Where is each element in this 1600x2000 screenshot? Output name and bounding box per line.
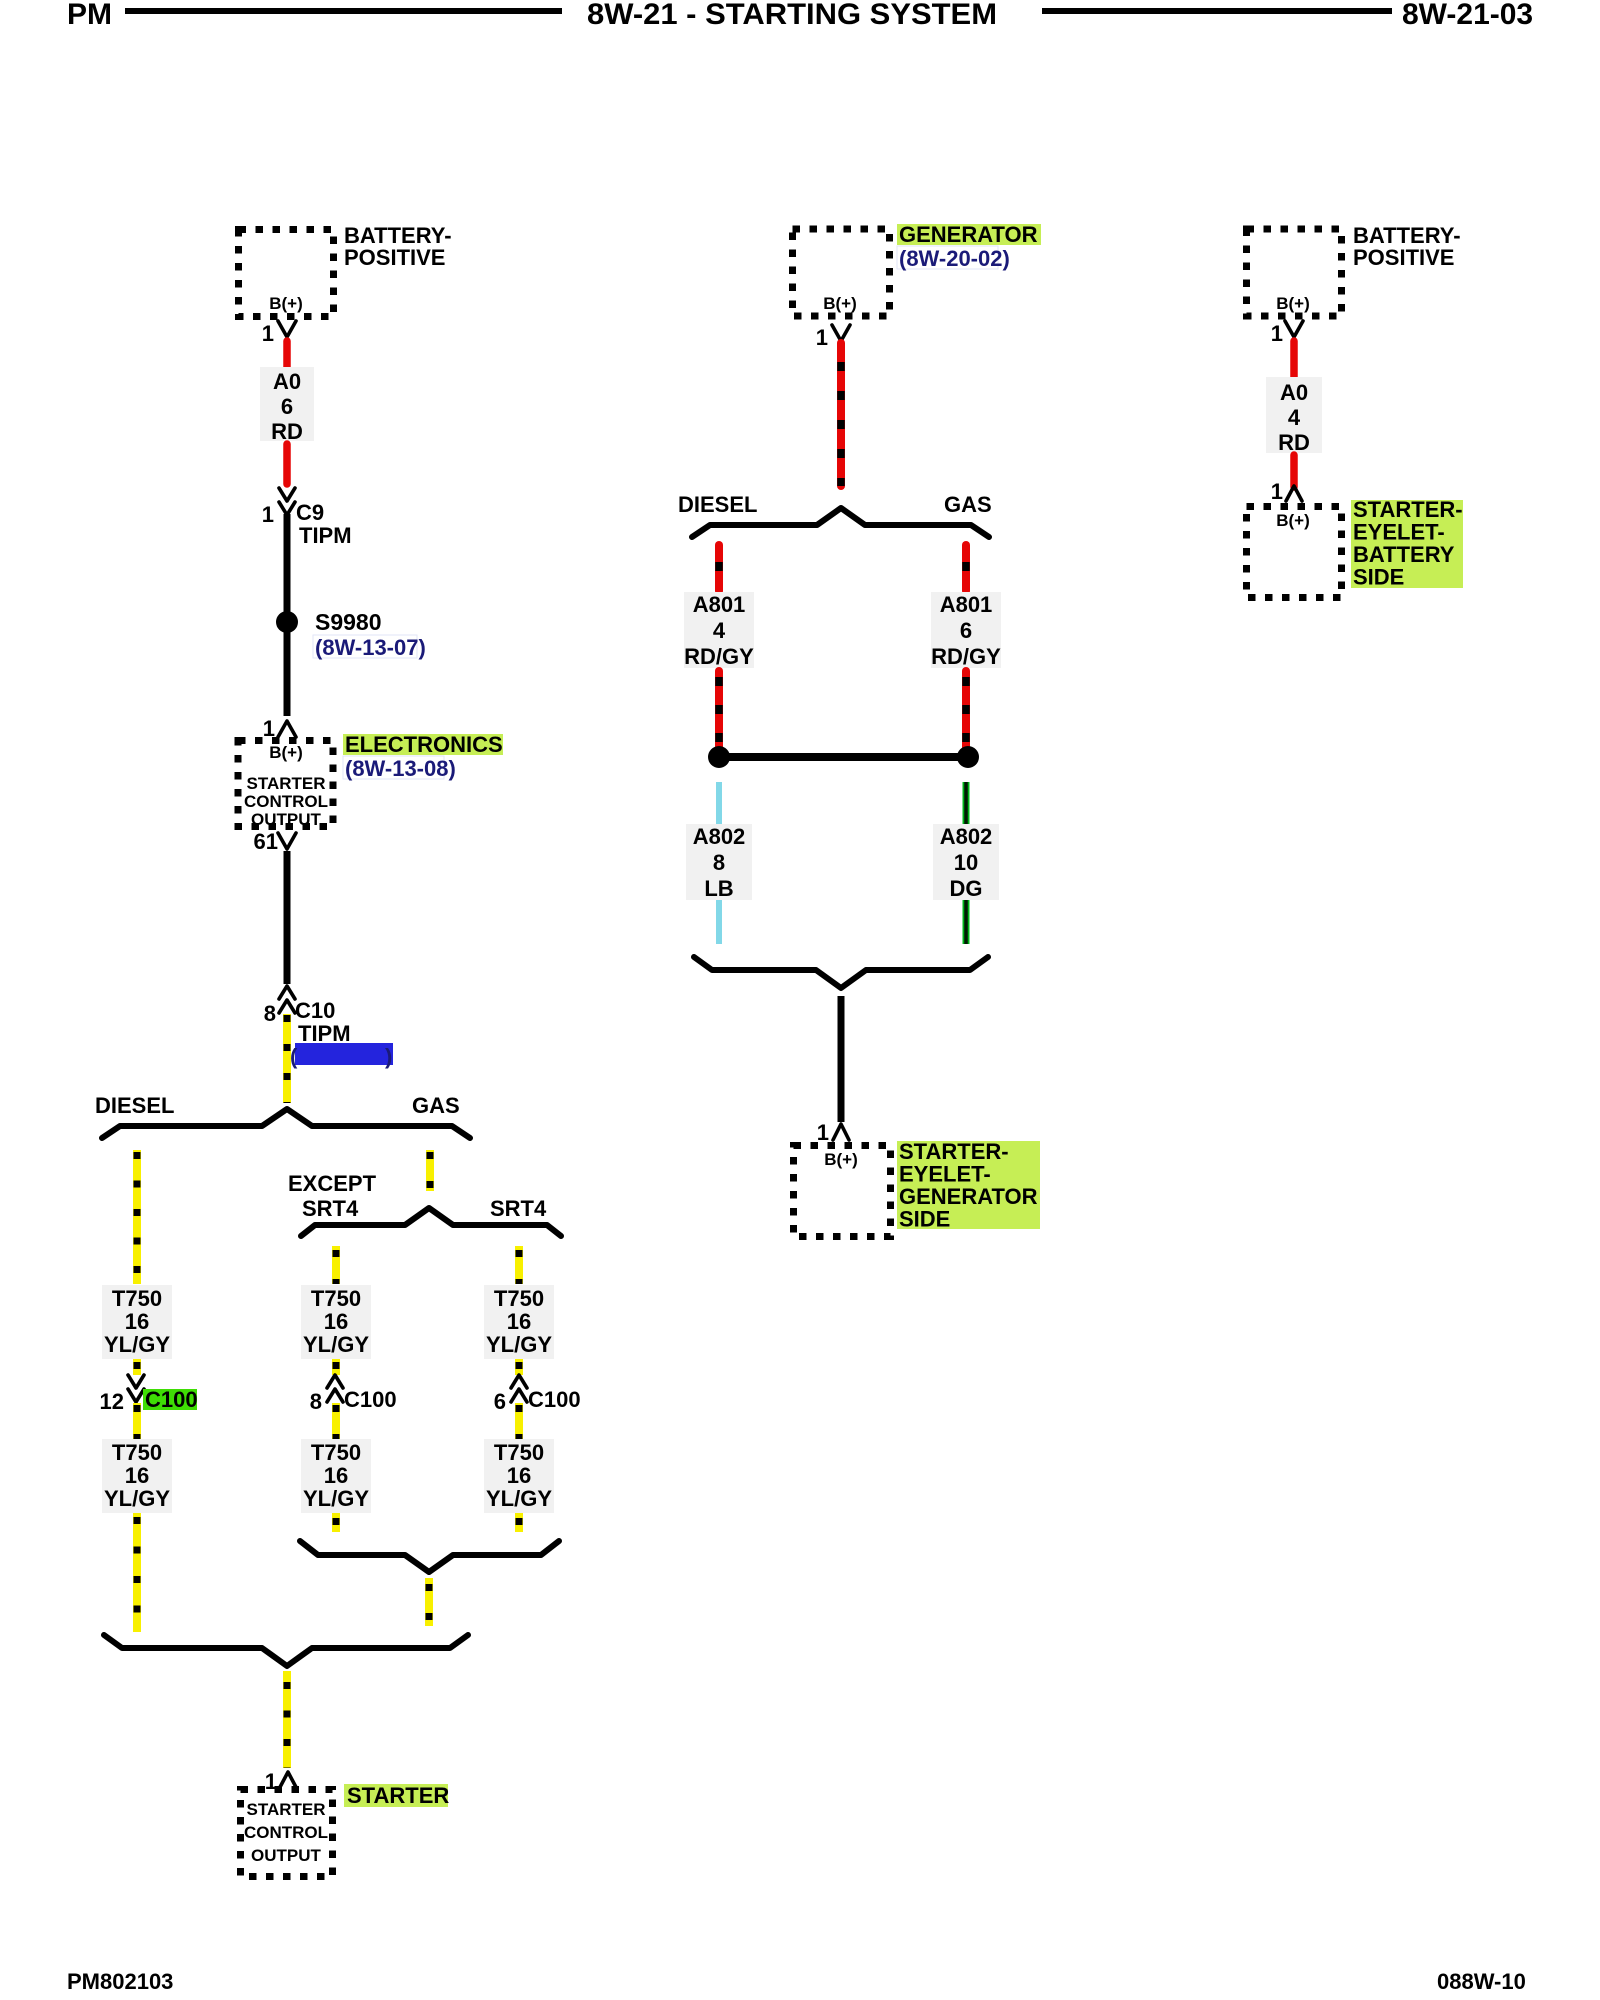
svg-text:GAS: GAS	[944, 492, 992, 517]
component box ELECTRONICS B(+) STARTER CONTROL OUTPUT	[238, 741, 333, 830]
svg-text:B(+): B(+)	[1276, 294, 1310, 313]
wire red dashed generator output	[837, 343, 845, 486]
connector chevron into electronics box	[278, 721, 296, 737]
wire A801 6 RD/GY lower segment	[962, 671, 970, 749]
svg-text:STARTER: STARTER	[246, 1800, 325, 1819]
svg-text:DIESEL: DIESEL	[95, 1093, 174, 1118]
connector chevron at battery box (right)	[1285, 321, 1303, 337]
svg-text:8: 8	[713, 850, 725, 875]
wire label T750 16 YL/GY lower (diesel)	[102, 1439, 172, 1513]
wire A801 6 RD/GY upper segment	[962, 545, 970, 591]
merge brace middle column	[694, 957, 988, 988]
connector chevron at battery box (left)	[278, 321, 296, 337]
svg-text:(8W-13-08): (8W-13-08)	[345, 756, 456, 781]
component box starter eyelet generator side B(+)	[794, 1146, 891, 1237]
split brace EXCEPT SRT4/SRT4	[301, 1208, 561, 1236]
svg-text:4: 4	[1288, 405, 1301, 430]
component box GENERATOR	[793, 229, 890, 316]
merge brace diesel/gas final	[104, 1635, 468, 1666]
svg-text:SRT4: SRT4	[490, 1196, 547, 1221]
wire label T750 16 YL/GY (diesel)	[102, 1285, 172, 1359]
svg-text:B(+): B(+)	[823, 294, 857, 313]
wire srt4 yellow stub lower	[515, 1513, 523, 1532]
svg-text:DG: DG	[950, 876, 983, 901]
svg-text:EYELET-: EYELET-	[899, 1162, 991, 1187]
svg-text:OUTPUT: OUTPUT	[251, 1846, 322, 1865]
svg-text:SIDE: SIDE	[1353, 565, 1404, 590]
wire label A801 6 RD/GY	[931, 592, 1001, 669]
svg-text:TIPM: TIPM	[298, 1021, 351, 1046]
svg-text:16: 16	[125, 1309, 149, 1334]
wire A802 8 LB lower segment	[716, 900, 722, 944]
svg-text:): )	[385, 1044, 392, 1069]
svg-text:T750: T750	[494, 1286, 544, 1311]
wire yellow stub above C100 (diesel)	[133, 1359, 141, 1375]
wire T750 yellow below C10	[283, 1014, 291, 1103]
svg-text:CONTROL: CONTROL	[244, 792, 328, 811]
svg-text:1: 1	[1271, 321, 1283, 346]
wire A0 4 RD lower segment	[1290, 455, 1298, 487]
wire A0 6 RD upper segment	[283, 341, 291, 367]
wire A802 8 LB upper segment	[716, 782, 722, 825]
svg-text:C9: C9	[296, 500, 324, 525]
svg-text:TIPM: TIPM	[299, 523, 352, 548]
svg-text:BATTERY: BATTERY	[1353, 542, 1455, 567]
splice S9980	[276, 611, 298, 633]
connector name C10 TIPM	[295, 998, 351, 1046]
svg-text:POSITIVE: POSITIVE	[1353, 245, 1454, 270]
svg-text:B(+): B(+)	[269, 294, 303, 313]
wire A0 4 RD upper segment	[1290, 341, 1298, 377]
svg-text:T750: T750	[311, 1440, 361, 1465]
svg-text:PM: PM	[67, 0, 112, 31]
wire yellow stub above C100 (srt4)	[515, 1359, 523, 1375]
svg-text:1: 1	[262, 321, 274, 346]
svg-text:8: 8	[264, 1001, 276, 1026]
svg-text:EYELET-: EYELET-	[1353, 520, 1445, 545]
connector C100 chevrons (pin 6)	[511, 1375, 527, 1402]
svg-text:A0: A0	[273, 369, 301, 394]
svg-text:GENERATOR: GENERATOR	[899, 1184, 1038, 1209]
svg-text:POSITIVE: POSITIVE	[344, 245, 445, 270]
svg-text:STARTER-: STARTER-	[1353, 497, 1463, 522]
svg-text:SIDE: SIDE	[899, 1207, 950, 1232]
wire except-srt4 yellow stub lower	[332, 1513, 340, 1532]
connector C100 chevrons (pin 8)	[327, 1375, 343, 1402]
svg-text:C100: C100	[145, 1387, 198, 1412]
svg-text:YL/GY: YL/GY	[104, 1332, 170, 1357]
connector name C9 TIPM	[296, 500, 352, 548]
wire yellow below gas merge	[425, 1578, 433, 1626]
component box BATTERY-POSITIVE (right)	[1247, 229, 1342, 316]
svg-text:16: 16	[125, 1463, 149, 1488]
connector C9 chevrons	[279, 488, 295, 515]
svg-text:GENERATOR: GENERATOR	[899, 222, 1038, 247]
wire diesel yellow long lower	[133, 1513, 141, 1632]
reference (8W-13-08)	[343, 756, 456, 781]
svg-text:61: 61	[254, 829, 278, 854]
svg-text:YL/GY: YL/GY	[104, 1486, 170, 1511]
wire black to starter eyelet generator side	[838, 996, 845, 1122]
svg-text:A801: A801	[693, 592, 746, 617]
header rule left	[125, 8, 562, 14]
svg-text:A802: A802	[940, 824, 993, 849]
redacted reference under TIPM	[290, 1043, 393, 1069]
svg-text:T750: T750	[311, 1286, 361, 1311]
svg-text:B(+): B(+)	[1276, 511, 1310, 530]
svg-text:ELECTRONICS: ELECTRONICS	[345, 732, 503, 757]
svg-text:STARTER: STARTER	[246, 774, 325, 793]
wire yellow stub below C100 (diesel)	[133, 1403, 141, 1439]
svg-text:EXCEPT: EXCEPT	[288, 1171, 377, 1196]
svg-text:4: 4	[713, 618, 726, 643]
svg-text:16: 16	[507, 1309, 531, 1334]
junction dot right	[957, 746, 979, 768]
svg-text:CONTROL: CONTROL	[244, 1823, 328, 1842]
svg-text:088W-10: 088W-10	[1437, 1969, 1526, 1994]
wire except-srt4 yellow stub	[332, 1246, 340, 1284]
connector chevron into starter box	[279, 1772, 297, 1789]
label ELECTRONICS highlighted	[343, 732, 503, 757]
junction dot left	[708, 746, 730, 768]
svg-text:GAS: GAS	[412, 1093, 460, 1118]
wire black electronics to C10	[284, 851, 291, 984]
svg-text:STARTER: STARTER	[347, 1783, 449, 1808]
svg-text:T750: T750	[112, 1440, 162, 1465]
connector chevron out of electronics box	[278, 833, 296, 849]
wire gas branch yellow upper	[426, 1150, 434, 1191]
wire yellow stub below C100 (except srt4)	[332, 1403, 340, 1439]
branch label EXCEPT SRT4	[288, 1171, 377, 1221]
reference (8W-13-07)	[313, 635, 426, 660]
svg-text:S9980: S9980	[315, 609, 382, 635]
svg-text:(8W-13-07): (8W-13-07)	[315, 635, 426, 660]
wire black C9 to splice	[284, 514, 291, 613]
svg-text:C10: C10	[295, 998, 335, 1023]
svg-text:6: 6	[960, 618, 972, 643]
wire A0 6 RD lower segment	[283, 444, 291, 484]
label BATTERY-POSITIVE (right)	[1353, 223, 1461, 270]
svg-text:T750: T750	[494, 1440, 544, 1465]
wire label A802 8 LB	[686, 824, 752, 901]
svg-text:C100: C100	[344, 1387, 397, 1412]
wire A801 4 RD/GY upper segment	[715, 545, 723, 591]
svg-text:YL/GY: YL/GY	[486, 1332, 552, 1357]
svg-text:12: 12	[100, 1389, 124, 1414]
wire label T750 16 YL/GY (srt4)	[484, 1285, 554, 1359]
svg-text:RD/GY: RD/GY	[931, 644, 1001, 669]
svg-text:16: 16	[507, 1463, 531, 1488]
bus wire between junctions	[719, 753, 968, 761]
wire A802 10 DG lower segment	[963, 900, 970, 944]
svg-text:1: 1	[817, 1120, 829, 1145]
component box BATTERY-POSITIVE (left)	[239, 230, 334, 317]
svg-text:OUTPUT: OUTPUT	[251, 810, 322, 829]
wire black splice to electronics box	[284, 632, 291, 716]
wire A802 10 DG upper segment	[963, 782, 970, 825]
svg-text:A801: A801	[940, 592, 993, 617]
svg-text:A802: A802	[693, 824, 746, 849]
svg-text:16: 16	[324, 1309, 348, 1334]
svg-text:PM802103: PM802103	[67, 1969, 173, 1994]
merge brace gas branches	[300, 1541, 559, 1572]
svg-text:8W-21 - STARTING SYSTEM: 8W-21 - STARTING SYSTEM	[587, 0, 997, 31]
svg-text:YL/GY: YL/GY	[486, 1486, 552, 1511]
svg-text:T750: T750	[112, 1286, 162, 1311]
label STARTER highlighted	[344, 1783, 449, 1808]
svg-text:6: 6	[281, 394, 293, 419]
svg-text:B(+): B(+)	[269, 743, 303, 762]
connector C100 chevrons (pin 12)	[128, 1375, 144, 1402]
svg-text:16: 16	[324, 1463, 348, 1488]
svg-text:YL/GY: YL/GY	[303, 1486, 369, 1511]
wire label A0 4 RD	[1266, 377, 1322, 455]
svg-text:6: 6	[494, 1389, 506, 1414]
component box STARTER CONTROL OUTPUT	[241, 1790, 333, 1877]
component box starter eyelet battery side B(+)	[1247, 507, 1342, 598]
split brace DIESEL/GAS (middle)	[692, 508, 989, 537]
label GENERATOR highlighted	[897, 222, 1041, 247]
connector chevron into battery side eyelet	[1286, 486, 1302, 501]
svg-text:(8W-20-02): (8W-20-02)	[899, 246, 1010, 271]
label STARTER-EYELET-GENERATOR SIDE highlighted	[897, 1139, 1040, 1232]
reference (8W-20-02)	[897, 246, 1010, 271]
wire A801 4 RD/GY lower segment	[715, 671, 723, 749]
svg-text:8: 8	[310, 1389, 322, 1414]
svg-text:SRT4: SRT4	[302, 1196, 359, 1221]
svg-text:DIESEL: DIESEL	[678, 492, 757, 517]
wire label T750 16 YL/GY lower (except srt4)	[301, 1439, 371, 1513]
wire label A802 10 DG	[933, 824, 999, 901]
svg-text:C100: C100	[528, 1387, 581, 1412]
wire yellow stub below C100 (srt4)	[515, 1403, 523, 1439]
wire yellow stub above C100 (except srt4)	[332, 1359, 340, 1375]
svg-text:1: 1	[262, 502, 274, 527]
connector name C100 highlighted green	[143, 1387, 198, 1412]
wire label T750 16 YL/GY lower (srt4)	[484, 1439, 554, 1513]
label STARTER-EYELET-BATTERY SIDE highlighted	[1351, 497, 1463, 590]
svg-text:LB: LB	[704, 876, 733, 901]
label BATTERY-POSITIVE (left)	[344, 223, 452, 270]
svg-text:10: 10	[954, 850, 978, 875]
wire label T750 16 YL/GY (except srt4)	[301, 1285, 371, 1359]
wire label A0 6 RD	[260, 367, 314, 444]
svg-text:B(+): B(+)	[824, 1150, 858, 1169]
connector chevron into generator side eyelet	[833, 1124, 849, 1140]
wire label A801 4 RD/GY	[684, 592, 754, 669]
svg-text:STARTER-: STARTER-	[899, 1139, 1009, 1164]
svg-text:YL/GY: YL/GY	[303, 1332, 369, 1357]
wire diesel branch yellow upper	[133, 1150, 141, 1284]
wire srt4 yellow stub	[515, 1246, 523, 1284]
svg-text:1: 1	[1271, 479, 1283, 504]
svg-text:A0: A0	[1280, 380, 1308, 405]
svg-text:8W-21-03: 8W-21-03	[1402, 0, 1533, 31]
header rule right	[1042, 8, 1392, 14]
svg-text:RD/GY: RD/GY	[684, 644, 754, 669]
connector chevron at generator box	[832, 325, 850, 341]
split brace DIESEL/GAS (left column)	[102, 1109, 470, 1138]
svg-text:1: 1	[816, 325, 828, 350]
connector C10 chevrons	[279, 986, 295, 1013]
wire yellow into starter	[283, 1671, 291, 1768]
svg-text:(: (	[290, 1044, 298, 1069]
